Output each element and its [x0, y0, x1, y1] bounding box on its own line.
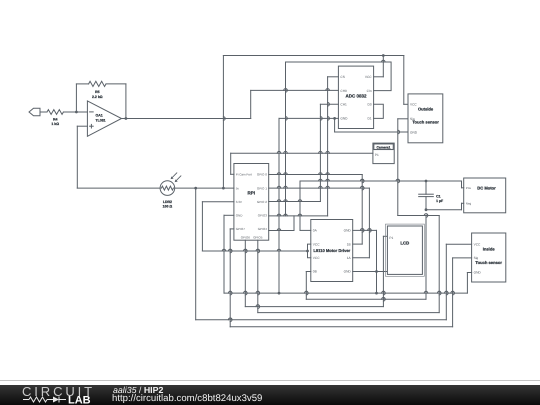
svg-text:3.3V: 3.3V: [236, 200, 242, 204]
svg-text:Touch sensor: Touch sensor: [475, 260, 502, 265]
wire ADC CS elbow: [328, 77, 339, 216]
chip ADC1 ADC 0832 box: [338, 66, 373, 128]
wire LDR drop: [195, 188, 197, 320]
svg-text:CH1: CH1: [340, 103, 347, 107]
wire outside sensor VCC drop: [404, 56, 408, 105]
pin rpi GPIO3: [258, 214, 268, 218]
svg-text:P1: P1: [375, 153, 379, 157]
label Inside: [483, 246, 496, 251]
wire l9110 0B drop: [306, 272, 311, 300]
svg-text:Camera1: Camera1: [377, 145, 391, 149]
wire rpi GPIO7 drop: [230, 229, 234, 327]
chip RPI box: [234, 164, 269, 241]
wire left drop from ADC GND line: [278, 118, 280, 293]
svg-text:VCC: VCC: [365, 75, 372, 79]
node l9110 gnd junction: [375, 270, 378, 273]
wire ADC D0-D1 bracket: [374, 104, 384, 118]
wire gpio4 jog: [293, 216, 295, 231]
op-amp OA1: [87, 101, 121, 136]
pin ADC CH1: [340, 103, 347, 107]
svg-text:GPIO 1: GPIO 1: [257, 186, 267, 190]
capacitor C1: [419, 181, 434, 210]
pin outside GND: [410, 131, 418, 135]
node CIN/VCCriser crossing: [382, 60, 386, 62]
node gpio3 crossings: [277, 214, 302, 216]
pin inside GND: [474, 271, 482, 275]
node vccdrop crossing: [446, 291, 448, 295]
node C1 top junction: [425, 180, 428, 183]
node camline crossings: [277, 151, 329, 153]
pin ADC D1: [368, 117, 372, 121]
label L9110 Motor Driver: [313, 248, 350, 253]
pin lcd P1: [389, 236, 393, 240]
node C1 bottom junction: [425, 208, 428, 211]
svg-text:CIn: CIn: [367, 89, 372, 93]
pin l9110 GND1: [344, 229, 352, 233]
wire op-amp output: [122, 118, 251, 120]
svg-text:Sig: Sig: [474, 256, 479, 260]
wire rpi GPIO1 row: [269, 187, 370, 189]
node ADC VCC junction: [382, 54, 385, 57]
node 0bdrop crossing: [306, 291, 308, 295]
node gpio5riser crossing: [439, 291, 441, 295]
node output junction: [125, 117, 128, 120]
node posline crossings: [319, 179, 400, 181]
svg-text:GPIO7: GPIO7: [236, 227, 246, 231]
module LCD outer box: [386, 224, 425, 276]
wire neg line: [426, 203, 464, 209]
node gpio4 crossing: [277, 229, 281, 231]
svg-text:GPIO6: GPIO6: [241, 236, 251, 240]
node CH0/CIN crossing: [284, 89, 288, 91]
wire inside Sig riser: [453, 258, 472, 327]
pin motor Neg: [466, 202, 472, 206]
node 0bbus crossing: [382, 297, 386, 299]
svg-text:L9110 Motor Driver: L9110 Motor Driver: [313, 248, 350, 253]
wire camera line: [231, 152, 373, 154]
pin ADC GND: [340, 117, 348, 121]
label DC Motor: [477, 186, 496, 191]
wire L9110 VCC bracket: [308, 244, 311, 258]
svg-text:0B: 0B: [313, 270, 317, 274]
node CH1/ADCGND crossing: [320, 117, 322, 121]
pin l9110 1B: [347, 242, 351, 246]
svg-text:R4: R4: [53, 118, 58, 122]
pin rpi GPIO7: [236, 227, 246, 231]
node gpio7 crossings: [230, 249, 232, 321]
node ldrbus crossing: [228, 318, 232, 320]
wire gpio5 riser: [438, 216, 440, 313]
pin ADC D0: [368, 103, 372, 107]
pin ADC CS: [340, 75, 344, 79]
node gndbus dot right: [375, 292, 378, 295]
pin rpi GPIO0: [257, 173, 267, 177]
wire LDR line right: [175, 187, 234, 189]
svg-text:Sig: Sig: [410, 117, 415, 121]
svg-text:P1: P1: [389, 236, 393, 240]
wire rpi GPIO3 row: [269, 215, 328, 217]
svg-text:GND: GND: [340, 117, 348, 121]
wire pos elbow: [462, 181, 464, 188]
svg-text:OA1: OA1: [96, 114, 103, 118]
wire l9110 gnd2 to LCD: [353, 271, 387, 273]
footer bar: [0, 385, 540, 405]
label R4 value: [51, 118, 59, 127]
wire gpio7 bus: [230, 326, 452, 328]
wire feedback right riser: [125, 84, 127, 119]
node top rail to LDR junction: [222, 187, 225, 190]
svg-text:GPIO5: GPIO5: [253, 236, 263, 240]
svg-text:LDR2: LDR2: [163, 200, 172, 204]
label C1: [436, 194, 444, 203]
pin l9110 0A: [313, 229, 318, 233]
svg-text:TL081: TL081: [96, 118, 106, 122]
pin l9110 VCC1: [313, 242, 320, 246]
node gpio6 crossings: [245, 249, 247, 295]
svg-text:D0: D0: [368, 103, 372, 107]
wire neg link line: [398, 215, 439, 217]
pin ADC CIn: [367, 89, 372, 93]
svg-text:100 Ω: 100 Ω: [163, 205, 173, 209]
svg-text:CH0: CH0: [340, 89, 347, 93]
svg-text:C1: C1: [436, 194, 441, 198]
wire top rail left riser: [222, 56, 224, 189]
node gpio1drop crossing: [369, 229, 371, 233]
svg-text:RPI: RPI: [248, 191, 256, 196]
pin rpi 5v: [236, 186, 240, 190]
wire inside GND riser: [467, 273, 471, 294]
pin l9110 GND2: [344, 270, 352, 274]
wire gpio3 to 0A drop: [300, 181, 311, 230]
node top rail / output crossing: [223, 117, 225, 121]
wire 0Bbus riser: [425, 216, 427, 300]
svg-text:VCC: VCC: [313, 242, 320, 246]
svg-text:GPIO 2: GPIO 2: [257, 200, 267, 204]
svg-text:D1: D1: [368, 117, 372, 121]
wire ground bus: [224, 292, 467, 294]
node vccbus junction: [306, 250, 309, 253]
svg-text:GND: GND: [344, 270, 352, 274]
svg-text:ADC 0832: ADC 0832: [345, 94, 367, 99]
wire l9110 gnd right: [353, 229, 377, 231]
svg-text:GPIO4: GPIO4: [258, 227, 268, 231]
pin rpi GPIO4: [258, 227, 268, 231]
node IN terminal flag: [29, 108, 47, 116]
svg-text:Touch sensor: Touch sensor: [412, 120, 439, 125]
pin rpi 3.3V: [236, 200, 242, 204]
wire CIN drop: [285, 62, 287, 216]
wire rpi 3.3V elbow: [202, 202, 234, 251]
pin rpi GPIO5 bottom: [253, 236, 263, 240]
wire rpi GPIO6 drop: [244, 240, 246, 306]
wire LDR line left: [77, 187, 160, 189]
node gndbus crossings: [228, 291, 454, 293]
svg-text:1 µF: 1 µF: [436, 199, 444, 203]
wire ADC GND drop: [335, 118, 408, 132]
svg-text:VCC: VCC: [474, 243, 481, 247]
wire rpi GPIO2 row: [269, 201, 321, 203]
wire motor pos line: [300, 180, 462, 182]
pin outside Sig: [410, 117, 415, 121]
svg-text:Pos: Pos: [466, 186, 472, 190]
wire gpio1 drop to 1A: [353, 188, 370, 258]
wire ADC CH1 elbow: [320, 104, 338, 201]
label LCD: [400, 240, 409, 245]
wire CH0 line: [251, 89, 339, 91]
label Camera1 header: [374, 144, 394, 150]
node CS/ADCGND crossing: [328, 117, 330, 121]
svg-text:Pi Cam Port: Pi Cam Port: [236, 173, 252, 177]
wire gpio0 drop to 1B: [353, 175, 363, 245]
photoresistor LDR2: [160, 173, 181, 196]
svg-text:Inside: Inside: [483, 246, 496, 251]
wire rpi GND elbow: [224, 215, 234, 293]
node CH0/CS crossing: [326, 89, 330, 91]
module DC Motor box: [464, 178, 506, 213]
wire ADC VCC riser: [374, 56, 384, 77]
wire rpi GPIO4 row: [269, 230, 294, 232]
svg-text:GND: GND: [474, 271, 482, 275]
pin rpi GPIO1: [257, 186, 267, 190]
svg-text:GND: GND: [410, 131, 418, 135]
node Sig/GNDline junction: [398, 130, 400, 134]
node gndright crossings: [360, 229, 371, 231]
node CINdrop/CH0: [286, 89, 288, 93]
pin ADC VCC: [365, 75, 372, 79]
svg-text:GPIO3: GPIO3: [258, 214, 268, 218]
pin rpi GPIO2: [257, 200, 267, 204]
wire outside Sig drop: [398, 119, 408, 216]
svg-text:DC Motor: DC Motor: [477, 186, 496, 191]
pin inside Sig: [474, 256, 479, 260]
node gpio2 crossings: [277, 200, 302, 202]
wire ADC GND line: [279, 117, 338, 119]
wire top rail: [223, 55, 403, 57]
label R5 value: [92, 90, 103, 99]
wire + input down: [77, 126, 87, 188]
wire 0B bus: [306, 298, 426, 300]
pin l9110 1A: [347, 256, 352, 260]
svg-text:VCC: VCC: [410, 103, 417, 107]
module Camera1 box: [373, 143, 394, 164]
node A junction (inverting input): [75, 111, 78, 114]
wire inside VCC drop: [446, 244, 471, 320]
pin outside VCC: [410, 103, 417, 107]
node gpio0 crossings: [277, 173, 329, 175]
node neglink crossing: [424, 214, 428, 216]
svg-text:GND: GND: [344, 229, 352, 233]
label Outside: [418, 107, 434, 112]
node gpio1 crossings: [277, 186, 364, 188]
wire rpi GPIO5 drop: [257, 240, 259, 312]
node C1 drop crossing: [426, 214, 428, 218]
svg-text:R5: R5: [95, 90, 100, 94]
label ADC 0832: [345, 94, 367, 99]
pin l9110 0B: [313, 270, 317, 274]
svg-text:VCC: VCC: [313, 256, 320, 260]
node ADC GND junction: [333, 117, 336, 120]
svg-text:CS: CS: [340, 75, 344, 79]
node CINdrop/ADCGND: [286, 117, 288, 121]
label OA1: [96, 114, 106, 123]
label Touch sensor outside: [412, 120, 439, 125]
resistor R4: [47, 110, 87, 115]
wire rpi GPIO0 row: [269, 174, 363, 176]
svg-text:1A: 1A: [347, 256, 352, 260]
svg-text:Neg: Neg: [466, 202, 472, 206]
svg-text:5v: 5v: [236, 186, 240, 190]
pin camera P1: [375, 153, 379, 157]
pin rpi GPIO6 bottom: [241, 236, 251, 240]
node lcdriser crossings: [383, 291, 385, 301]
svg-text:LCD: LCD: [400, 240, 409, 245]
wire vcc bus: [202, 250, 307, 252]
module LCD box: [387, 226, 422, 274]
label Touch sensor inside: [475, 260, 502, 265]
separator line: [0, 380, 540, 381]
wire ADC CIN loop: [286, 62, 392, 91]
svg-text:Outside: Outside: [418, 107, 434, 112]
label RPI: [248, 191, 256, 196]
node LDR junction: [194, 187, 197, 190]
svg-text:LAB: LAB: [68, 395, 91, 405]
pin l9110 VCC2: [313, 256, 320, 260]
wire gpio5 bus: [258, 312, 439, 314]
svg-text:2.2 kΩ: 2.2 kΩ: [92, 95, 103, 99]
node Sig/Posline junction: [398, 179, 400, 183]
module Inside Touch sensor box: [472, 233, 506, 282]
wire camera to RPI: [231, 153, 234, 174]
node gpio5 crossings: [258, 249, 260, 308]
module Outside Touch sensor box: [408, 94, 443, 143]
resistor R5: [89, 81, 126, 86]
node gpio6bus crossing: [256, 305, 260, 307]
pin rpi PiCam: [236, 173, 252, 177]
wire gpio6 bus: [245, 306, 383, 308]
node gpio0drop crossings: [362, 179, 364, 232]
wire LCD P1 riser: [383, 236, 387, 306]
node CS/CH1 crossing: [328, 103, 330, 107]
pin ADC CH0: [340, 89, 347, 93]
node gndbus dot left: [278, 292, 281, 295]
wire output to CH0 riser: [250, 90, 252, 118]
node sigriser crossing: [453, 291, 455, 295]
svg-text:GPIO 0: GPIO 0: [257, 173, 267, 177]
wire ldr bus: [196, 319, 447, 321]
node vccbus crossings: [222, 249, 281, 251]
svg-text:1 kΩ: 1 kΩ: [51, 122, 59, 126]
label LDR2: [163, 200, 173, 209]
svg-text:1B: 1B: [347, 242, 351, 246]
pin inside VCC: [474, 243, 481, 247]
svg-text:GND: GND: [236, 214, 244, 218]
chip U2 L9110 box: [311, 220, 353, 282]
svg-text:0A: 0A: [313, 229, 318, 233]
wire l9110 gnd drop: [376, 230, 378, 293]
wire feedback left riser: [76, 84, 88, 112]
pin rpi GND: [236, 214, 244, 218]
CircuitLab logo: [16, 385, 108, 405]
pin motor Pos: [466, 186, 472, 190]
